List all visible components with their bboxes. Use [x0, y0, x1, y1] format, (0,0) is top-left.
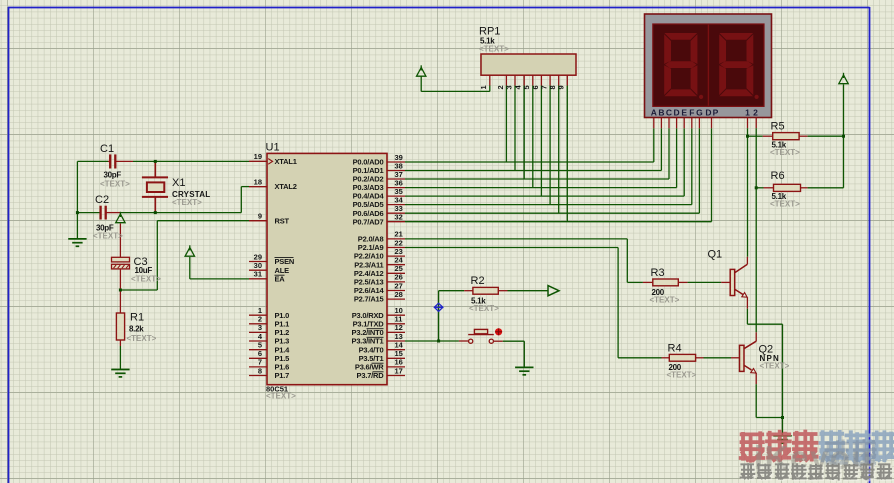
svg-text:8: 8 [258, 366, 262, 375]
svg-text:2: 2 [753, 107, 758, 117]
svg-text:1: 1 [745, 107, 750, 117]
svg-text:F: F [689, 107, 694, 117]
svg-text:31: 31 [254, 270, 262, 279]
svg-text:D: D [674, 107, 680, 117]
svg-text:<TEXT>: <TEXT> [127, 334, 157, 343]
svg-text:8.2k: 8.2k [129, 325, 144, 334]
svg-text:<TEXT>: <TEXT> [770, 200, 800, 209]
svg-text:<TEXT>: <TEXT> [172, 198, 202, 207]
svg-text:29: 29 [254, 252, 262, 261]
svg-text:<TEXT>: <TEXT> [469, 304, 499, 313]
svg-text:6: 6 [531, 85, 540, 89]
svg-text:ALE: ALE [275, 266, 290, 275]
svg-text:XTAL2: XTAL2 [275, 182, 297, 191]
svg-text:<TEXT>: <TEXT> [770, 148, 800, 157]
svg-text:P0.7/AD7: P0.7/AD7 [353, 217, 384, 226]
svg-text:C2: C2 [95, 194, 109, 206]
svg-text:<TEXT>: <TEXT> [479, 45, 509, 54]
svg-text:17: 17 [395, 366, 403, 375]
svg-text:18: 18 [254, 177, 262, 186]
svg-text:R5: R5 [771, 121, 785, 133]
svg-text:B: B [658, 107, 664, 117]
svg-text:<TEXT>: <TEXT> [93, 232, 123, 241]
svg-text:<TEXT>: <TEXT> [650, 296, 680, 305]
svg-text:30pF: 30pF [104, 171, 122, 180]
svg-text:C1: C1 [100, 143, 114, 155]
svg-text:<TEXT>: <TEXT> [667, 371, 697, 380]
svg-text:R3: R3 [651, 267, 665, 279]
svg-text:PSEN: PSEN [275, 257, 295, 266]
svg-text:28: 28 [395, 290, 403, 299]
svg-text:D: D [705, 107, 711, 117]
svg-text:<TEXT>: <TEXT> [100, 180, 130, 189]
svg-text:C: C [666, 107, 672, 117]
svg-text:P: P [713, 107, 719, 117]
svg-text:Q1: Q1 [708, 248, 723, 260]
svg-text:13: 13 [395, 332, 403, 341]
svg-text:P2.7/A15: P2.7/A15 [354, 295, 384, 304]
svg-text:P1.3: P1.3 [275, 337, 290, 346]
svg-text:32: 32 [395, 213, 403, 222]
svg-text:<TEXT>: <TEXT> [131, 275, 161, 284]
svg-text:G: G [696, 107, 703, 117]
svg-text:A: A [651, 107, 657, 117]
svg-text:<TEXT>: <TEXT> [760, 362, 790, 371]
svg-text:U1: U1 [266, 142, 280, 154]
svg-text:E: E [681, 107, 687, 117]
svg-text:9: 9 [557, 85, 566, 89]
svg-text:19: 19 [254, 152, 262, 161]
svg-text:R1: R1 [130, 312, 144, 324]
svg-text:R2: R2 [471, 275, 485, 287]
svg-text:3: 3 [504, 85, 513, 89]
svg-text:XTAL1: XTAL1 [275, 157, 297, 166]
svg-text:RST: RST [275, 216, 290, 225]
svg-text:R6: R6 [771, 170, 785, 182]
svg-text:P3.7/RD: P3.7/RD [357, 371, 385, 380]
svg-text:1: 1 [479, 85, 488, 89]
svg-text:<TEXT>: <TEXT> [266, 392, 296, 401]
svg-text:R4: R4 [668, 342, 682, 354]
svg-text:10uF: 10uF [135, 266, 153, 275]
svg-text:P1.7: P1.7 [275, 371, 290, 380]
svg-text:P3.3/INT1: P3.3/INT1 [352, 337, 384, 346]
svg-text:X1: X1 [172, 177, 185, 189]
svg-text:EA: EA [275, 275, 286, 284]
svg-text:30: 30 [254, 261, 262, 270]
svg-text:9: 9 [258, 212, 262, 221]
